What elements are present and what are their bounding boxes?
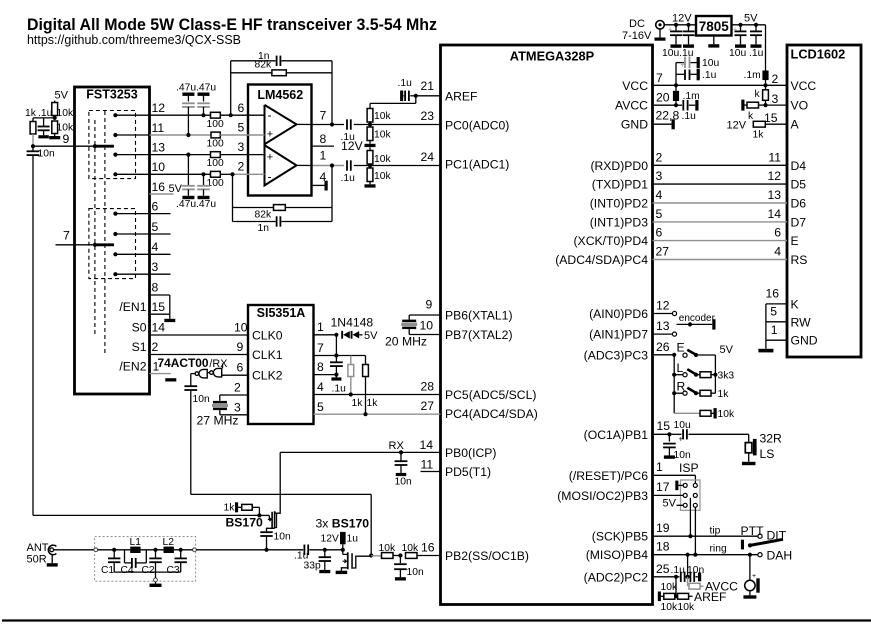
capacitor .1u PA coupling <box>303 545 305 556</box>
wire PA gate to divider <box>369 553 373 557</box>
svg-text:12V: 12V <box>672 13 692 25</box>
svg-text:https://github.com/threeme3/QC: https://github.com/threeme3/QCX-SSB <box>27 33 241 47</box>
ground at LPF <box>155 582 157 584</box>
wire FST /EN2 pin1 to ground <box>150 373 171 375</box>
page bottom border <box>2 619 871 621</box>
mcu U3 ATMEGA328P <box>441 45 653 605</box>
ISP pins <box>683 483 687 487</box>
svg-text:(XCK/T0)PD4: (XCK/T0)PD4 <box>574 234 649 248</box>
resistor 10k PC1 divider upper <box>369 147 371 150</box>
svg-text:+: + <box>668 27 672 34</box>
capacitor .1u at 12V input <box>688 25 690 31</box>
svg-text:6: 6 <box>656 226 663 240</box>
svg-text:4: 4 <box>152 240 159 254</box>
resistor 1k SCL pullup <box>350 356 352 365</box>
svg-text:4: 4 <box>656 188 663 202</box>
svg-text:13: 13 <box>152 141 166 155</box>
resistor 10k mic bias AVCC <box>687 577 689 586</box>
svg-text:.1u: .1u <box>38 108 53 119</box>
svg-text:17: 17 <box>656 480 670 494</box>
svg-text:14: 14 <box>767 207 781 221</box>
svg-text:PTT: PTT <box>741 524 765 538</box>
svg-text:13: 13 <box>656 319 670 333</box>
svg-text:7: 7 <box>317 341 324 355</box>
svg-text:S1: S1 <box>132 340 147 354</box>
svg-text:PC5(ADC5/SCL): PC5(ADC5/SCL) <box>445 388 536 402</box>
svg-text:S0: S0 <box>132 321 147 335</box>
wire gate output to mute cap <box>191 373 195 375</box>
resistor 82k feedback B <box>233 207 274 209</box>
regulator U5 7805 <box>696 16 732 36</box>
svg-text:10k: 10k <box>718 409 735 420</box>
svg-text:.47u.47u: .47u.47u <box>176 199 216 210</box>
capacitor 10u at 5V rail <box>740 25 742 31</box>
capacitor C1 <box>113 550 115 558</box>
svg-text:3k3: 3k3 <box>718 371 735 382</box>
resistor 10k bias upper <box>54 101 56 103</box>
svg-text:(/RESET)/PC6: (/RESET)/PC6 <box>569 469 648 483</box>
ground at PC1 divider <box>365 184 376 187</box>
svg-text:+: + <box>680 60 685 69</box>
resistor 10k to AREF <box>676 595 678 597</box>
capacitor .1u VCC decoupling <box>676 73 684 75</box>
wire pin4 to ground <box>312 184 325 186</box>
resistor 10k AREF divider lower <box>369 125 371 128</box>
svg-text:1k: 1k <box>367 398 379 409</box>
capacitor 10n mute <box>184 385 197 387</box>
ground at encoder <box>712 319 715 329</box>
svg-text:10k: 10k <box>374 130 391 141</box>
svg-text:20 MHz: 20 MHz <box>385 335 427 349</box>
wire RF line ANT to LPF <box>54 549 95 551</box>
svg-text:5V: 5V <box>720 344 734 356</box>
svg-text:12: 12 <box>767 169 781 183</box>
PA mosfet body <box>342 550 344 555</box>
svg-text:6: 6 <box>774 226 781 240</box>
svg-text:(MISO)PB4: (MISO)PB4 <box>586 548 649 562</box>
svg-text:2: 2 <box>234 381 241 395</box>
resistor 10k key 2 <box>406 553 418 559</box>
svg-text:3: 3 <box>152 260 159 274</box>
inductor .1m VCC to AVCC <box>673 91 679 101</box>
svg-text:(RXD)PD0: (RXD)PD0 <box>590 159 648 173</box>
svg-text:+: + <box>679 435 684 444</box>
wire FST pin11 row gray <box>115 134 149 136</box>
svg-text:GND: GND <box>791 334 818 348</box>
svg-text:k: k <box>755 89 761 100</box>
svg-text:/EN2: /EN2 <box>119 360 146 374</box>
svg-text:1k: 1k <box>25 108 37 119</box>
svg-text:10k: 10k <box>57 108 74 119</box>
svg-text:5: 5 <box>656 207 663 221</box>
svg-text:RX: RX <box>389 440 405 452</box>
svg-text:PB7(XTAL2): PB7(XTAL2) <box>445 328 513 342</box>
svg-text:10: 10 <box>420 318 434 332</box>
svg-text:C4: C4 <box>121 565 134 576</box>
svg-text:PC4(ADC4/SDA): PC4(ADC4/SDA) <box>445 407 538 421</box>
svg-text:C1: C1 <box>101 565 114 576</box>
svg-text:1: 1 <box>771 323 778 337</box>
wire FST pin6 stub <box>115 213 170 215</box>
wire PD5 pin11 stub <box>421 471 441 473</box>
svg-text:.1u: .1u <box>702 70 717 81</box>
ground at LCD pins <box>758 349 773 353</box>
capacitor .1u AVCC <box>676 104 682 106</box>
resistor 100 row11 <box>211 132 220 138</box>
svg-text:LCD1602: LCD1602 <box>791 47 846 62</box>
svg-text:10k: 10k <box>661 602 678 613</box>
svg-text:27 MHz: 27 MHz <box>197 414 239 428</box>
svg-text:100: 100 <box>207 178 224 189</box>
svg-text:4: 4 <box>317 380 324 394</box>
wire mute line to key shaping <box>191 493 371 495</box>
svg-text:5: 5 <box>317 400 324 414</box>
svg-text:10k: 10k <box>374 171 391 182</box>
svg-text:+: + <box>267 129 273 141</box>
capacitor 10u VCC decoupling <box>675 63 677 86</box>
wire LCD ground bus <box>765 304 767 349</box>
svg-text:.1u: .1u <box>682 111 697 122</box>
resistor 10k key 1 <box>382 553 394 559</box>
wire /RESET pin1 to ISP <box>653 474 696 476</box>
svg-text:82k: 82k <box>255 60 272 71</box>
wire PB4 pin18 ring <box>653 554 759 556</box>
svg-text:10k: 10k <box>661 582 678 593</box>
svg-text:10u: 10u <box>702 58 719 69</box>
svg-text:8: 8 <box>317 360 324 374</box>
wire between gates <box>207 372 209 374</box>
svg-text:3: 3 <box>234 401 241 415</box>
wire PB1 pin15 <box>653 433 670 435</box>
wire LCD GND pin1 <box>766 339 787 341</box>
svg-text:23: 23 <box>421 109 435 123</box>
svg-text:A: A <box>791 118 800 132</box>
ground at MCU GND pin <box>672 119 675 129</box>
resistor 10k AREF divider upper <box>369 103 371 108</box>
svg-text:LS: LS <box>760 447 775 461</box>
svg-text:13: 13 <box>767 188 781 202</box>
wire PD-LCD data row pin 3 to LCD 12 <box>653 183 788 185</box>
svg-text:D5: D5 <box>791 178 807 192</box>
capacitor 10u at 12V input <box>675 25 677 31</box>
resistor 1k SDA pullup <box>363 365 369 377</box>
svg-text:22,8: 22,8 <box>656 109 680 123</box>
svg-text:7: 7 <box>320 108 327 122</box>
capacitor .1u PC0 coupling <box>346 119 348 129</box>
capacitor .1u bias <box>43 118 45 126</box>
wire diodes to 5V <box>359 334 362 336</box>
svg-text:/EN1: /EN1 <box>119 300 146 314</box>
resistor 100 row10 <box>211 171 221 177</box>
svg-text:3: 3 <box>656 169 663 183</box>
svg-text:20: 20 <box>656 91 670 105</box>
wire GND pins 22,8 <box>653 123 672 125</box>
wire L1 to L2 <box>141 549 164 551</box>
svg-text:27: 27 <box>656 245 670 259</box>
svg-text:AREF: AREF <box>694 590 727 604</box>
svg-text:12: 12 <box>152 101 166 115</box>
capacitor .47u A <box>182 93 194 96</box>
connector J1 DC jack <box>656 21 665 30</box>
resistor k contrast lower to ground <box>741 100 744 111</box>
svg-text:+: + <box>733 27 737 34</box>
ground at FST /EN2 <box>165 378 176 381</box>
wire FST pin13 row <box>115 154 210 156</box>
wire AREF pin21 <box>416 95 441 97</box>
wire FST pin12 row <box>115 114 210 116</box>
svg-text:(ADC4/SDA)PC4: (ADC4/SDA)PC4 <box>555 253 648 267</box>
ground at speaker <box>748 453 750 462</box>
svg-text:CLK1: CLK1 <box>252 348 283 362</box>
capacitor 10n RX tap <box>260 531 272 533</box>
svg-text:16: 16 <box>152 180 166 194</box>
inductor .1m 5V to LCD VCC <box>762 71 768 81</box>
wire FST pin3 stub <box>115 273 170 275</box>
svg-text:10n: 10n <box>674 450 691 461</box>
ground at DC jack <box>659 29 661 37</box>
svg-text:.1u: .1u <box>398 78 413 89</box>
svg-text:1N4148: 1N4148 <box>331 316 374 330</box>
wire BS170 source to cap <box>267 528 275 531</box>
svg-text:5V: 5V <box>663 498 677 510</box>
wire FST pin4 stub <box>115 253 170 255</box>
inductor L1 <box>130 547 140 553</box>
svg-text:(INT1)PD3: (INT1)PD3 <box>590 215 648 229</box>
capacitor 10n key filter <box>399 556 401 564</box>
capacitor C4 <box>124 550 126 563</box>
wire PC2 pin25 <box>653 576 677 578</box>
wire button column <box>673 355 675 414</box>
crystal X2 27MHz <box>227 394 248 396</box>
svg-text:(ADC2)PC2: (ADC2)PC2 <box>584 570 649 584</box>
svg-text:2: 2 <box>152 340 159 354</box>
wire SI pin1 VDD <box>314 334 337 336</box>
header ISP box <box>681 480 701 510</box>
svg-text:.1m: .1m <box>744 70 761 81</box>
svg-text:1k: 1k <box>753 130 765 141</box>
svg-text:7: 7 <box>63 229 70 243</box>
svg-text:FST3253: FST3253 <box>86 88 137 102</box>
svg-text:SI5351A: SI5351A <box>257 306 306 320</box>
wire AVCC pin20 <box>653 104 677 106</box>
svg-text:AVCC: AVCC <box>615 99 648 113</box>
svg-text:7: 7 <box>656 71 663 85</box>
svg-text:D6: D6 <box>791 197 807 211</box>
ground at mic filter <box>698 573 701 582</box>
svg-text:LM4562: LM4562 <box>257 88 303 102</box>
svg-text:5: 5 <box>238 121 245 135</box>
wire PB5 pin19 tip <box>653 535 759 537</box>
svg-text:6: 6 <box>237 361 244 375</box>
capacitor 33p <box>324 550 326 557</box>
wire pin8 12V supply <box>312 145 335 147</box>
capacitor .47u D <box>203 174 205 186</box>
svg-text:PB0(ICP): PB0(ICP) <box>445 446 496 460</box>
wire AREF to divider <box>415 96 417 104</box>
wire PC2 divider <box>675 577 677 597</box>
wire SI pin5 to PC4 pin27 <box>314 413 441 415</box>
svg-text:RW: RW <box>791 315 812 329</box>
svg-text:50R: 50R <box>27 554 47 566</box>
svg-text:25: 25 <box>656 562 670 576</box>
svg-text:PB6(XTAL1): PB6(XTAL1) <box>445 309 513 323</box>
ground at microphone <box>749 591 751 596</box>
svg-text:1k: 1k <box>352 398 364 409</box>
wire top feedback right <box>331 61 333 125</box>
wire SI pin7 <box>314 355 337 357</box>
wire RF line to PA <box>196 549 303 551</box>
wire FST S1 pin2 to CLK1 <box>150 354 249 356</box>
svg-text:(TXD)PD1: (TXD)PD1 <box>592 178 648 192</box>
capacitor 10n at PB1 <box>668 434 670 441</box>
svg-text:encoder: encoder <box>679 313 716 324</box>
svg-text:16: 16 <box>765 287 779 301</box>
svg-text:4: 4 <box>774 245 781 259</box>
wire PD-LCD data row pin 6 to LCD 6 <box>653 240 788 242</box>
speaker LS 32R <box>748 434 750 442</box>
wire PD-LCD data row pin 27 to LCD 4 <box>653 259 788 261</box>
wire mic to cap junction <box>687 555 689 577</box>
wire 12V rail <box>664 24 696 26</box>
svg-text:100: 100 <box>207 158 224 169</box>
svg-text:VCC: VCC <box>622 79 648 93</box>
display LCD1602 <box>787 45 861 357</box>
wire buttons 5V rail <box>714 355 716 393</box>
svg-text:8: 8 <box>320 132 327 146</box>
wire gate feedback stub <box>222 364 224 369</box>
svg-text:1n: 1n <box>258 223 270 234</box>
ground at LM4562 pin4 <box>325 181 328 191</box>
svg-text:PC1(ADC1): PC1(ADC1) <box>445 158 509 172</box>
svg-text:ISP: ISP <box>679 461 699 475</box>
ground at ANT <box>51 555 53 564</box>
wire VCC net pin7 to LCD pin2 <box>653 84 788 86</box>
svg-text:(INT0)PD2: (INT0)PD2 <box>590 197 648 211</box>
resistor 1k mute gate <box>235 502 238 512</box>
svg-text:CLK0: CLK0 <box>252 329 283 343</box>
wire 5V rail <box>732 24 766 26</box>
svg-text:-: - <box>268 108 272 122</box>
svg-text:19: 19 <box>656 521 670 535</box>
ground at SI pin8 <box>335 375 337 378</box>
svg-text:15: 15 <box>657 419 671 433</box>
mux contact dots port1 <box>113 113 117 117</box>
svg-text:10k: 10k <box>402 543 419 554</box>
wire FST pin10 row <box>115 173 210 175</box>
svg-text:9: 9 <box>63 132 70 146</box>
svg-text:GND: GND <box>621 118 648 132</box>
svg-text:5: 5 <box>152 220 159 234</box>
crystal X1 20MHz <box>402 320 416 323</box>
svg-text:3x BS170: 3x BS170 <box>316 517 370 531</box>
svg-text:RS: RS <box>791 253 808 267</box>
svg-text:PC0(ADC0): PC0(ADC0) <box>445 118 509 132</box>
svg-text:10k: 10k <box>374 111 391 122</box>
svg-text:(AIN1)PD7: (AIN1)PD7 <box>589 328 648 342</box>
wire FST pin5 stub <box>115 233 170 235</box>
svg-text:12V: 12V <box>341 139 364 153</box>
svg-text:CLK2: CLK2 <box>252 369 283 383</box>
capacitor 10n mic filter <box>688 576 690 578</box>
wire pin7 to pullup bracket <box>336 355 365 357</box>
svg-text:10n: 10n <box>274 532 291 543</box>
svg-text:16: 16 <box>421 541 435 555</box>
svg-text:BS170: BS170 <box>226 516 263 530</box>
clockgen U4 SI5351A box <box>248 305 314 424</box>
svg-text:(OC1A)PB1: (OC1A)PB1 <box>584 428 649 442</box>
resistor 10k to ground AREF row <box>658 592 661 602</box>
svg-text:5V: 5V <box>364 330 378 342</box>
wire ISP SCK down to ring <box>694 508 696 555</box>
svg-text:PD5(T1): PD5(T1) <box>445 465 491 479</box>
ground at bias divider <box>49 136 60 139</box>
svg-text:ring: ring <box>710 544 727 555</box>
svg-text:10k: 10k <box>374 154 391 165</box>
capacitor .1u PC1 coupling <box>346 160 348 170</box>
microphone <box>749 555 751 581</box>
svg-text:5V: 5V <box>55 90 69 102</box>
svg-text:L1: L1 <box>130 537 142 548</box>
svg-text:10: 10 <box>234 321 248 335</box>
svg-text:9: 9 <box>426 298 433 312</box>
svg-text:(AIN0)PD6: (AIN0)PD6 <box>589 307 648 321</box>
ground at 7805 <box>713 36 715 45</box>
op-amp U2 LM4562 box <box>248 85 312 196</box>
wire ISP MOSI down to tip <box>689 498 691 536</box>
svg-text:14: 14 <box>420 438 434 452</box>
svg-text:2: 2 <box>238 160 245 174</box>
wire op-amp A output pin7 <box>297 123 312 125</box>
svg-text:10n: 10n <box>395 477 412 488</box>
svg-text:74ACT00: 74ACT00 <box>158 356 209 370</box>
svg-text:12V: 12V <box>727 119 747 131</box>
svg-text:K: K <box>791 297 799 311</box>
svg-text:5V: 5V <box>169 183 183 195</box>
svg-text:DAH: DAH <box>767 549 793 563</box>
svg-text:8: 8 <box>152 281 159 295</box>
wire CLK2 to gates <box>222 374 249 376</box>
svg-text:10n: 10n <box>687 565 704 576</box>
svg-text:5V: 5V <box>744 13 758 25</box>
svg-text:E: E <box>677 341 685 355</box>
resistor 100 row12 <box>211 112 221 118</box>
wire pin7 common input <box>56 244 114 246</box>
svg-text:(SCK)PB5: (SCK)PB5 <box>592 530 648 544</box>
capacitor .47u B <box>198 93 210 96</box>
svg-text:1: 1 <box>317 320 324 334</box>
capacitor 10n audio in <box>32 146 34 150</box>
capacitor .1u at 5V rail <box>755 25 757 31</box>
resistor 10k PC1 divider lower <box>369 166 371 169</box>
svg-text:1k: 1k <box>224 503 236 514</box>
wire op-amp B output pin1 <box>297 164 312 166</box>
wire bottom feedback left <box>232 174 234 221</box>
diode D2 1N4148 <box>351 331 353 339</box>
mux contact dots port2 <box>113 212 117 216</box>
svg-text:5: 5 <box>770 305 777 319</box>
svg-text:+: + <box>752 573 756 580</box>
mux lower dashed box <box>89 209 136 279</box>
capacitor .1u AREF <box>410 95 416 97</box>
inductor L2 <box>164 547 174 553</box>
wire bias node <box>33 117 55 119</box>
svg-text:.1u: .1u <box>341 173 356 184</box>
gate U6B nand <box>213 368 221 377</box>
svg-text:10: 10 <box>152 160 166 174</box>
svg-text:VO: VO <box>791 99 809 113</box>
svg-text:10k: 10k <box>678 602 695 613</box>
svg-text:.1u: .1u <box>332 384 347 395</box>
